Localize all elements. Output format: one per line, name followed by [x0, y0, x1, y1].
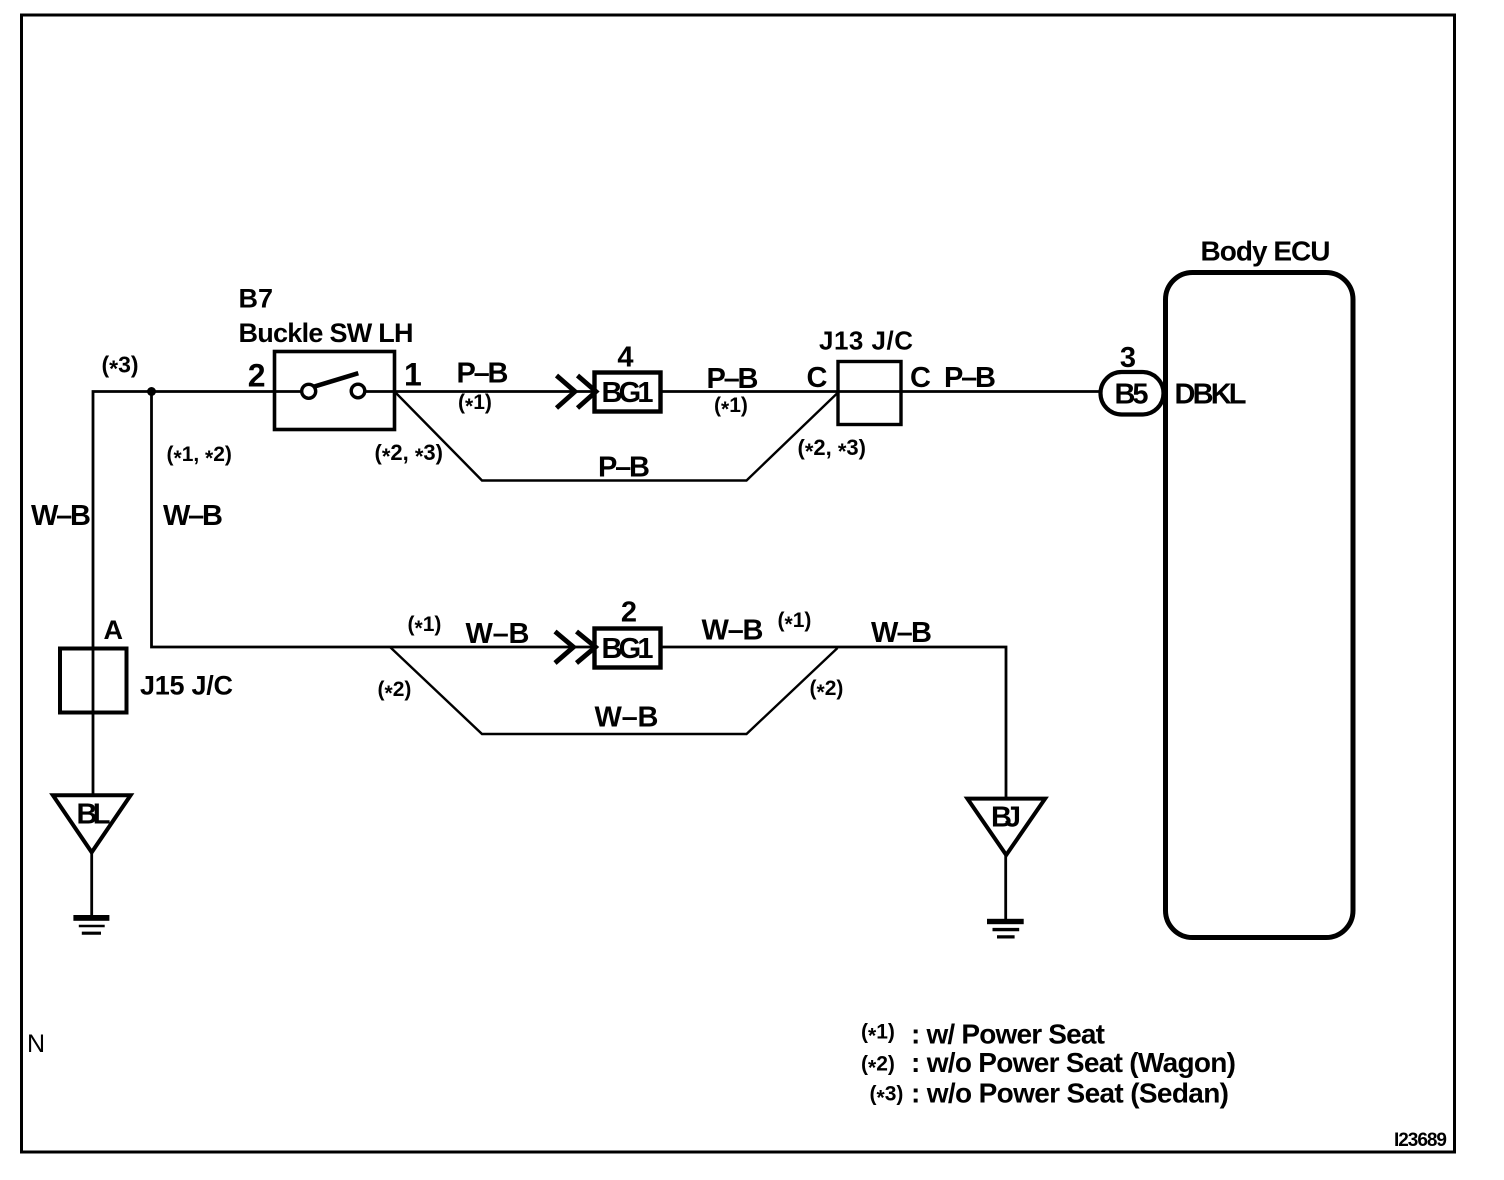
svg-text:(*2, *3): (*2, *3)	[798, 435, 866, 464]
svg-text:DBKL: DBKL	[1175, 379, 1247, 411]
svg-text:B7: B7	[239, 284, 274, 314]
svg-text:B5: B5	[1115, 379, 1149, 411]
svg-text:J13 J/C: J13 J/C	[819, 326, 913, 356]
svg-text:(*1, *2): (*1, *2)	[167, 443, 232, 470]
svg-text:W–B: W–B	[595, 702, 659, 734]
svg-text:W–B: W–B	[163, 500, 223, 532]
svg-text:BG1: BG1	[602, 377, 654, 409]
svg-text:N: N	[27, 1030, 45, 1058]
svg-text:(*2): (*2)	[810, 677, 844, 704]
svg-text:: w/o Power Seat (Sedan): : w/o Power Seat (Sedan)	[911, 1078, 1229, 1109]
svg-text:(*2): (*2)	[861, 1053, 895, 1080]
svg-text:3: 3	[1120, 342, 1136, 374]
svg-text:: w/o Power Seat (Wagon): : w/o Power Seat (Wagon)	[911, 1047, 1236, 1078]
svg-text:BL: BL	[77, 799, 111, 831]
svg-text:(*2): (*2)	[378, 678, 412, 705]
svg-text:J15 J/C: J15 J/C	[140, 671, 233, 701]
svg-text:(*3): (*3)	[870, 1083, 904, 1110]
svg-text:(*1): (*1)	[861, 1021, 895, 1048]
svg-text:C: C	[807, 362, 828, 394]
svg-text:2: 2	[621, 597, 637, 629]
svg-text:P–B: P–B	[457, 358, 509, 390]
svg-text:(*1): (*1)	[778, 609, 812, 636]
svg-text:(*1): (*1)	[458, 391, 492, 418]
svg-text:P–B: P–B	[598, 452, 650, 484]
svg-text:W–B: W–B	[466, 618, 530, 650]
svg-text:(*2, *3): (*2, *3)	[375, 440, 443, 469]
svg-text:BG1: BG1	[602, 633, 654, 665]
svg-text:(*1): (*1)	[714, 394, 748, 421]
svg-text:I23689: I23689	[1394, 1130, 1447, 1151]
svg-text:1: 1	[404, 357, 422, 393]
svg-text:A: A	[104, 615, 124, 645]
svg-text:(*1): (*1)	[408, 613, 442, 640]
svg-text:P–B: P–B	[944, 362, 996, 394]
svg-text:: w/ Power Seat: : w/ Power Seat	[911, 1019, 1105, 1050]
svg-text:BJ: BJ	[991, 802, 1021, 834]
svg-text:(*3): (*3)	[102, 352, 139, 382]
svg-text:W–B: W–B	[871, 617, 932, 649]
svg-text:4: 4	[617, 342, 633, 374]
svg-text:W–B: W–B	[31, 500, 91, 532]
svg-text:Buckle SW LH: Buckle SW LH	[239, 318, 414, 348]
svg-text:Body ECU: Body ECU	[1201, 236, 1331, 267]
svg-text:P–B: P–B	[707, 363, 759, 395]
svg-text:W–B: W–B	[702, 615, 764, 647]
svg-text:2: 2	[248, 358, 266, 394]
svg-text:C: C	[910, 362, 931, 394]
